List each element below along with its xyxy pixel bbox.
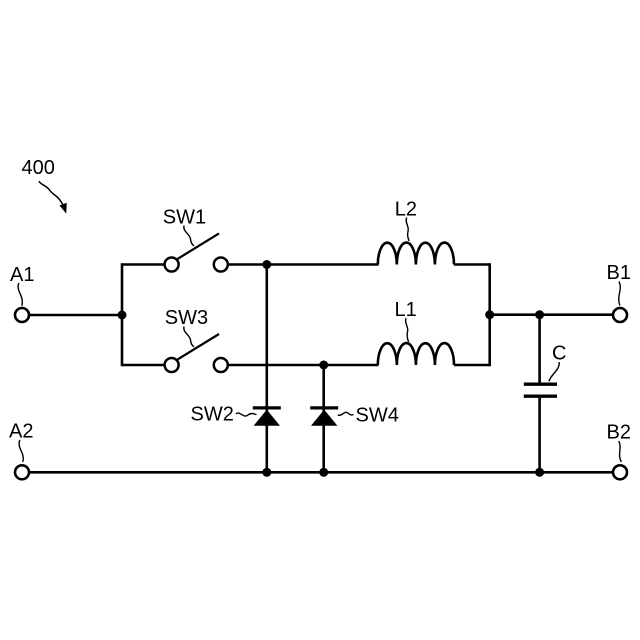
svg-text:C: C — [552, 343, 566, 365]
svg-text:L2: L2 — [395, 199, 417, 221]
leader B1 — [619, 282, 621, 306]
leader L1 — [406, 318, 409, 342]
switch SW1 — [165, 233, 228, 271]
svg-text:A2: A2 — [9, 421, 33, 443]
node SW4 tap — [319, 361, 328, 370]
node SW1 output — [262, 260, 271, 269]
leader SW4 — [338, 412, 354, 415]
wire right combiner vertical — [488, 263, 491, 366]
capacitor C — [524, 384, 557, 396]
wire bottom A2 to B2 — [30, 471, 613, 474]
wire SW2 branch vertical — [265, 265, 268, 473]
svg-text:A1: A1 — [10, 264, 34, 286]
wire L2 to right corner — [454, 263, 490, 266]
leader L2 — [406, 218, 409, 242]
wire to SW3 left — [122, 364, 165, 367]
wire left branch vertical — [121, 263, 124, 366]
svg-text:L1: L1 — [395, 299, 417, 321]
node combiner junction — [485, 310, 494, 319]
terminal A1 — [15, 308, 29, 322]
wire to SW1 left — [122, 263, 165, 266]
svg-text:SW3: SW3 — [165, 307, 208, 329]
node bottom capacitor — [535, 468, 544, 477]
inductor L2 — [378, 243, 454, 265]
terminal B1 — [613, 308, 627, 322]
switch SW3 — [165, 334, 228, 372]
leader C — [549, 362, 559, 381]
node left junction — [118, 311, 127, 320]
svg-text:B2: B2 — [607, 422, 631, 444]
wire SW3 to L1 — [229, 364, 379, 367]
leader A1 — [18, 283, 22, 306]
svg-text:SW1: SW1 — [163, 206, 206, 228]
leader SW1 — [184, 226, 194, 247]
wire L1 to right corner — [454, 364, 490, 367]
wire capacitor upper — [538, 315, 541, 383]
diode SW4 — [310, 408, 338, 426]
terminal A2 — [15, 465, 29, 479]
svg-text:400: 400 — [22, 157, 55, 179]
inductor L1 — [378, 343, 454, 365]
wire capacitor lower — [538, 398, 541, 472]
wire SW1 to L2 — [229, 263, 379, 266]
node capacitor tap top — [535, 310, 544, 319]
svg-text:SW4: SW4 — [356, 405, 399, 427]
wire combiner to B1 — [490, 313, 613, 316]
wire SW4 branch vertical — [322, 365, 325, 472]
leader SW3 — [184, 327, 194, 348]
wire A1 to left junction — [30, 314, 122, 317]
leader B2 — [619, 441, 622, 462]
node bottom SW4 — [319, 468, 328, 477]
node bottom SW2 — [262, 468, 271, 477]
svg-text:B1: B1 — [607, 262, 631, 284]
leader arrow for 400 — [39, 181, 66, 212]
svg-text:SW2: SW2 — [191, 404, 234, 426]
terminal B2 — [613, 465, 627, 479]
leader A2 — [19, 440, 23, 462]
leader SW2 — [236, 413, 257, 416]
diode SW2 — [253, 408, 281, 426]
